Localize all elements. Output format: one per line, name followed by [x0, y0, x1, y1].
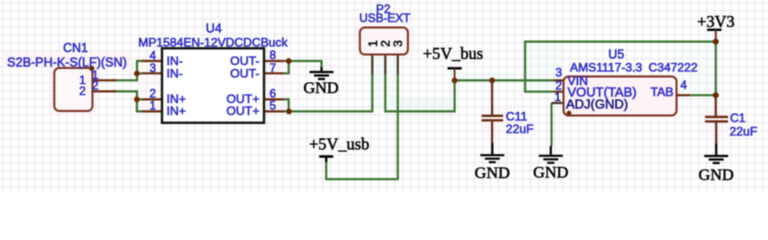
svg-text:1: 1 [149, 100, 156, 113]
svg-text:USB-EXT: USB-EXT [359, 11, 410, 25]
svg-text:GND: GND [475, 163, 511, 182]
svg-text:U4: U4 [206, 21, 222, 35]
svg-text:22uF: 22uF [506, 122, 534, 136]
svg-text:+3V3: +3V3 [697, 12, 734, 31]
svg-text:IN+: IN+ [167, 104, 186, 118]
svg-text:GND: GND [533, 163, 569, 182]
svg-text:MP1584EN-12VDCDCBuck: MP1584EN-12VDCDCBuck [138, 35, 288, 49]
svg-text:2: 2 [79, 85, 86, 98]
svg-text:AMS1117-3.3: AMS1117-3.3 [570, 61, 642, 75]
svg-text:+5V_bus: +5V_bus [423, 44, 483, 63]
svg-text:OUT-: OUT- [230, 66, 259, 80]
svg-text:TAB: TAB [650, 85, 673, 99]
svg-text:GND: GND [699, 165, 735, 184]
svg-text:22uF: 22uF [730, 124, 758, 138]
svg-text:U5: U5 [608, 48, 624, 62]
svg-text:+5V_usb: +5V_usb [309, 134, 369, 153]
svg-text:2: 2 [92, 80, 99, 93]
svg-text:OUT+: OUT+ [226, 104, 259, 118]
svg-text:IN-: IN- [167, 66, 183, 80]
svg-text:3: 3 [391, 40, 405, 47]
svg-text:4: 4 [149, 49, 156, 62]
svg-text:3: 3 [555, 66, 562, 79]
svg-text:3: 3 [149, 62, 156, 75]
svg-text:4: 4 [680, 79, 687, 92]
svg-text:1: 1 [554, 91, 561, 104]
svg-text:CN1: CN1 [63, 41, 88, 55]
svg-text:C1: C1 [730, 111, 746, 125]
svg-text:ADJ(GND): ADJ(GND) [566, 97, 628, 112]
svg-text:5: 5 [270, 100, 277, 113]
svg-text:8: 8 [270, 49, 277, 62]
svg-text:C347222: C347222 [649, 61, 698, 75]
svg-text:GND: GND [303, 78, 339, 97]
svg-text:S2B-PH-K-S(LF)(SN): S2B-PH-K-S(LF)(SN) [7, 55, 127, 69]
svg-text:7: 7 [270, 62, 277, 75]
